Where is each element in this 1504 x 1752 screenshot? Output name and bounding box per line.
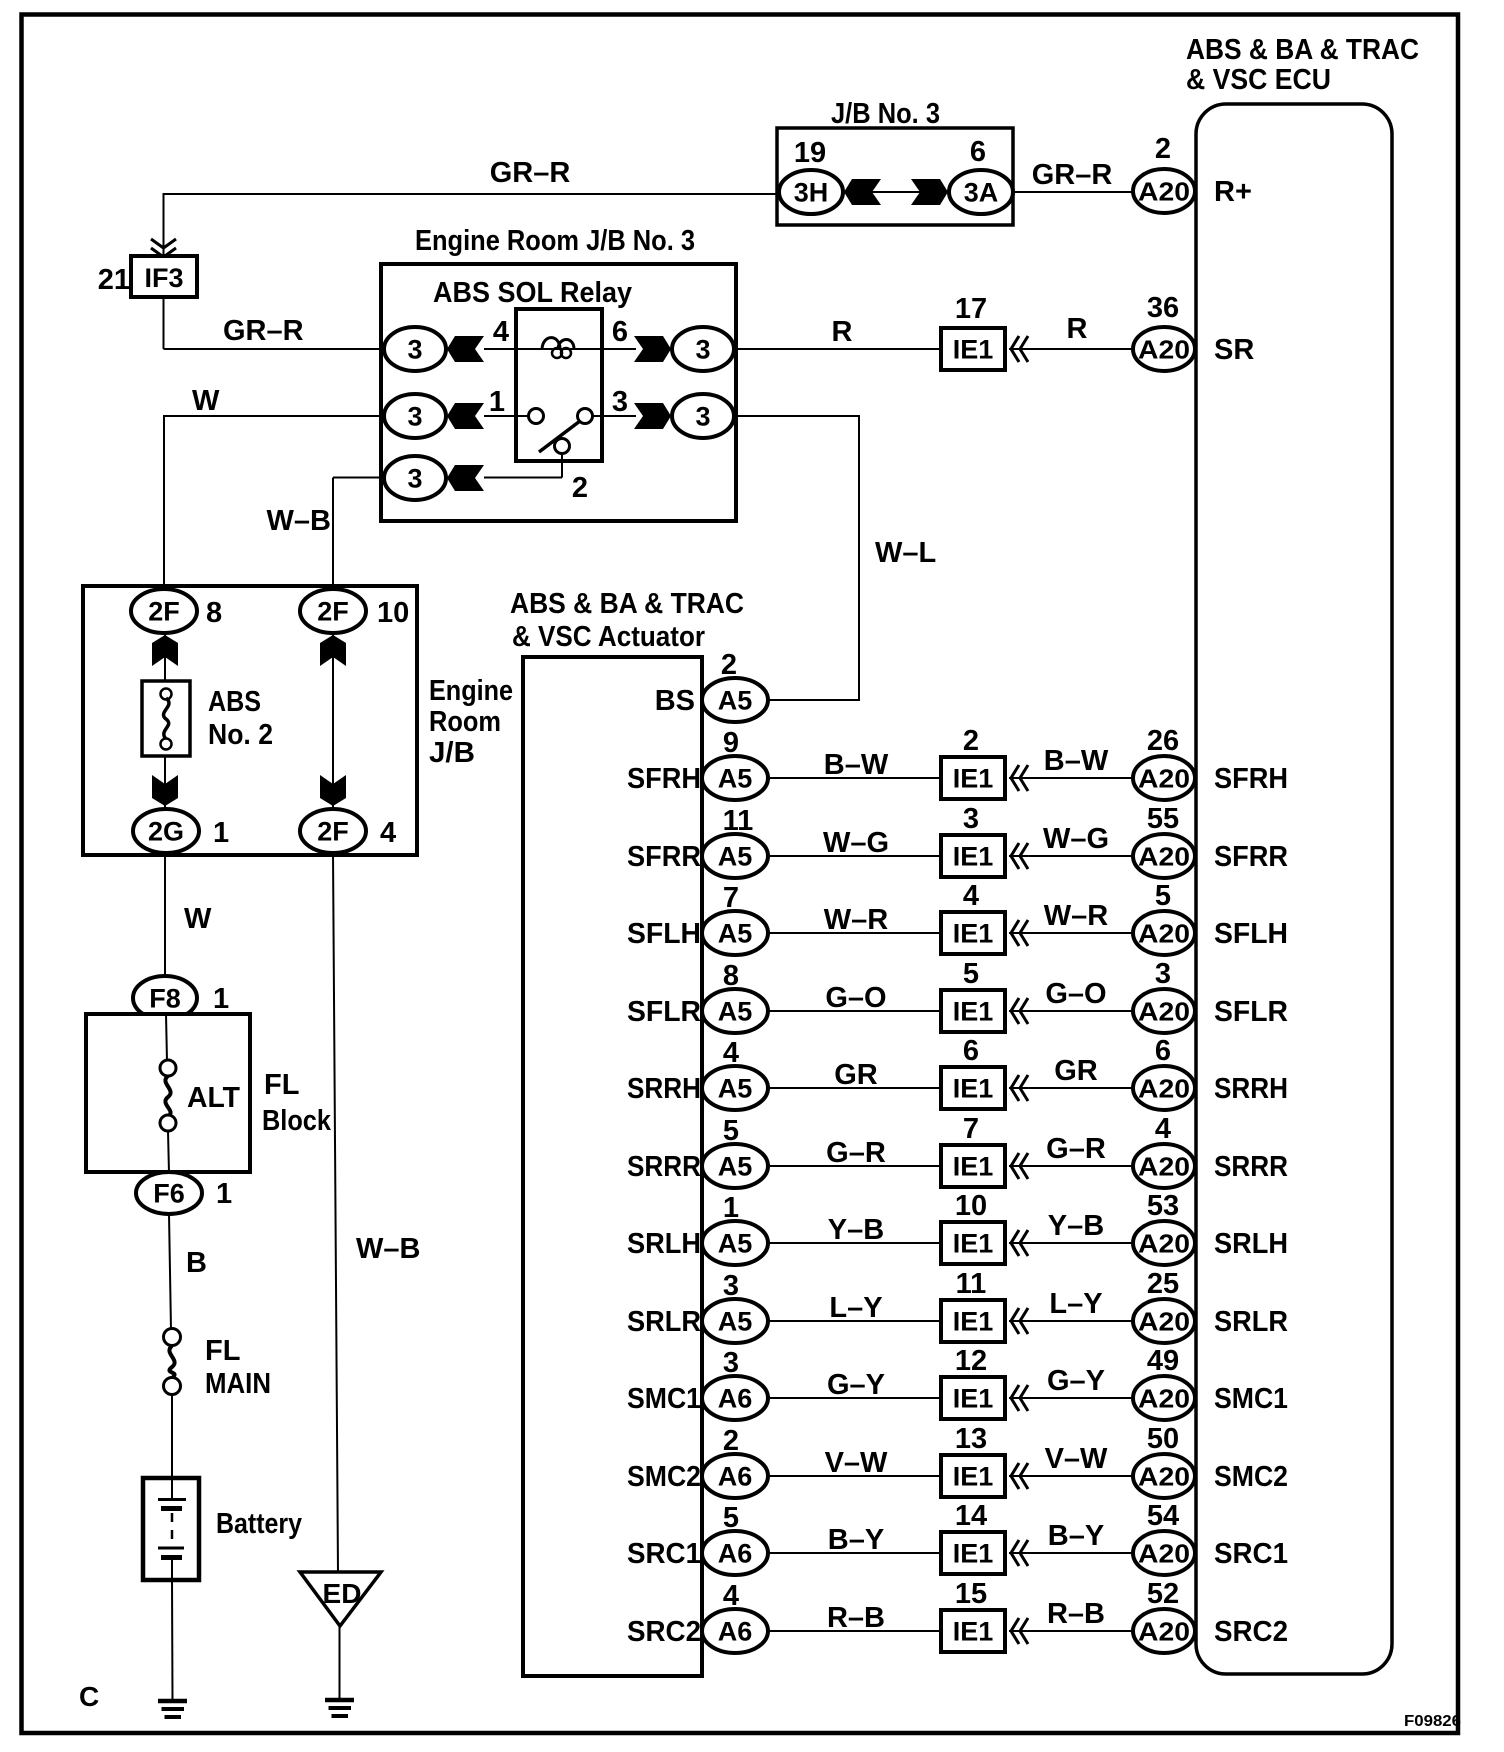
wire G–R from IE1 to ECU — [1009, 1165, 1133, 1167]
svg-text:5: 5 — [723, 1502, 739, 1534]
connector IE1 pin 4 — [941, 912, 1005, 954]
connector IE1 pin 5 — [941, 990, 1005, 1032]
junction block J/B No. 3 — [777, 98, 1013, 225]
svg-text:6: 6 — [970, 136, 986, 168]
wire B–W from IE1 to ECU — [1009, 777, 1133, 779]
wire B–W from A5 to IE1 — [768, 777, 941, 779]
svg-text:ALT: ALT — [187, 1082, 240, 1114]
svg-text:G–Y: G–Y — [1047, 1365, 1105, 1397]
svg-text:W–B: W–B — [267, 505, 331, 537]
svg-text:A20: A20 — [1138, 1229, 1190, 1259]
svg-text:3: 3 — [407, 464, 422, 494]
svg-text:SRLR: SRLR — [627, 1306, 701, 1338]
wire W to relay switch — [164, 415, 383, 590]
FL Block box — [86, 1014, 250, 1172]
connector mark at IE1 (SMC2) — [1011, 1463, 1019, 1489]
connector A20 pin 52 — [1133, 1609, 1195, 1653]
svg-text:A20: A20 — [1138, 335, 1190, 365]
svg-text:SFLH: SFLH — [627, 918, 701, 950]
svg-text:17: 17 — [955, 293, 987, 325]
svg-text:J/B No. 3: J/B No. 3 — [831, 98, 940, 130]
wire 2F-10 to 2F-4 — [332, 611, 334, 831]
battery — [143, 1478, 199, 1580]
svg-text:3: 3 — [407, 335, 422, 365]
connector IE1 pin 11 — [941, 1300, 1005, 1342]
svg-text:IE1: IE1 — [953, 919, 994, 949]
svg-text:1: 1 — [216, 1178, 232, 1210]
svg-text:A5: A5 — [718, 919, 753, 949]
connector 3 (relay coil in) — [384, 327, 446, 371]
svg-text:A6: A6 — [718, 1462, 753, 1492]
relay switch wire (pin 3 side) — [592, 415, 636, 417]
svg-text:3: 3 — [695, 335, 710, 365]
connector mark at IE1 (SMC1) — [1011, 1385, 1019, 1411]
svg-text:19: 19 — [794, 137, 826, 169]
connector A5 pin 11 — [702, 834, 768, 878]
connector A20 pin 55 — [1133, 834, 1195, 878]
svg-text:Y–B: Y–B — [1048, 1210, 1104, 1242]
svg-text:F6: F6 — [153, 1179, 185, 1209]
connector IE1 pin 13 — [941, 1455, 1005, 1497]
svg-text:SRC2: SRC2 — [1214, 1616, 1288, 1648]
svg-text:IF3: IF3 — [144, 263, 183, 293]
svg-text:B: B — [186, 1247, 207, 1279]
svg-text:Room: Room — [429, 706, 501, 738]
connector 2F pin 4 — [300, 809, 366, 853]
svg-text:2: 2 — [572, 472, 588, 504]
ECU ABS & BA & TRAC & VSC ECU box — [1186, 34, 1419, 1674]
svg-text:B–W: B–W — [824, 749, 889, 781]
connector mark at IE1 (SRRH) — [1011, 1075, 1019, 1101]
svg-text:7: 7 — [723, 882, 739, 914]
connector arrow out of relay pin 3 — [634, 403, 671, 429]
svg-text:A20: A20 — [1138, 1462, 1190, 1492]
svg-text:12: 12 — [955, 1345, 987, 1377]
svg-text:BS: BS — [655, 685, 695, 717]
svg-text:SMC2: SMC2 — [1214, 1461, 1288, 1493]
wire G–Y from A6 to IE1 — [768, 1397, 941, 1399]
connector A5 pin 4 — [702, 1066, 768, 1110]
svg-text:A20: A20 — [1138, 1152, 1190, 1182]
svg-text:SRLH: SRLH — [627, 1228, 701, 1260]
svg-text:4: 4 — [380, 817, 396, 849]
connector arrow up to 2F-10 — [320, 635, 346, 666]
svg-text:SRRH: SRRH — [627, 1073, 701, 1105]
wire R–B from A6 to IE1 — [768, 1630, 941, 1632]
connector IE1 pin 17 — [941, 328, 1005, 370]
svg-text:Battery: Battery — [216, 1508, 302, 1540]
wire B–Y from A6 to IE1 — [768, 1552, 941, 1554]
svg-text:L–Y: L–Y — [829, 1292, 882, 1324]
connector A6 pin 4 — [702, 1609, 768, 1653]
svg-text:A6: A6 — [718, 1539, 753, 1569]
svg-text:GR–R: GR–R — [1032, 159, 1113, 191]
svg-text:V–W: V–W — [825, 1447, 888, 1479]
svg-text:SFRR: SFRR — [1214, 841, 1288, 873]
svg-text:& VSC ECU: & VSC ECU — [1186, 64, 1331, 96]
svg-text:SFLR: SFLR — [627, 996, 701, 1028]
svg-text:C: C — [79, 1681, 99, 1712]
connector A20 pin 3 — [1133, 989, 1195, 1033]
svg-text:A6: A6 — [718, 1384, 753, 1414]
connector mark at IE1 — [1011, 336, 1019, 362]
svg-text:ABS SOL Relay: ABS SOL Relay — [433, 277, 632, 309]
connector IE1 pin 3 — [941, 835, 1005, 877]
wire GR-R from 3A to ECU pin 2 — [1014, 191, 1133, 193]
fusible link ALT — [160, 1014, 176, 1173]
svg-text:IE1: IE1 — [953, 335, 994, 365]
junction block Engine Room J/B No.3 box — [381, 264, 736, 521]
svg-text:2: 2 — [1155, 133, 1171, 165]
svg-text:GR–R: GR–R — [223, 315, 304, 347]
svg-text:Block: Block — [262, 1105, 332, 1137]
fuse IF3 — [131, 256, 197, 297]
connector A20 pin 53 — [1133, 1221, 1195, 1265]
wire GR-R from IF3 down to ABS SOL relay coil — [164, 297, 384, 349]
svg-text:5: 5 — [963, 958, 979, 990]
connector 3H — [779, 170, 843, 214]
svg-text:SRRR: SRRR — [627, 1151, 701, 1183]
svg-text:10: 10 — [955, 1190, 987, 1222]
svg-text:10: 10 — [377, 597, 409, 629]
svg-text:3: 3 — [1155, 958, 1171, 990]
svg-text:3: 3 — [723, 1347, 739, 1379]
connector IE1 pin 14 — [941, 1532, 1005, 1574]
connector mark at IE1 (SFLH) — [1011, 920, 1019, 946]
svg-text:SRC1: SRC1 — [1214, 1538, 1288, 1570]
svg-text:A5: A5 — [718, 686, 753, 716]
svg-text:IE1: IE1 — [953, 764, 994, 794]
svg-text:FL: FL — [205, 1335, 240, 1367]
wire W–G from A5 to IE1 — [768, 855, 941, 857]
svg-text:IE1: IE1 — [953, 1384, 994, 1414]
svg-text:R: R — [832, 316, 853, 348]
wire W-B from relay pin 2 down to Engine Room J/B — [333, 478, 383, 591]
connector 2F pin 8 — [131, 589, 197, 633]
wire W–R from IE1 to ECU — [1009, 932, 1133, 934]
svg-text:3: 3 — [695, 402, 710, 432]
connector mark at IE1 (SFRR) — [1011, 843, 1019, 869]
svg-text:IE1: IE1 — [953, 1539, 994, 1569]
junction block Engine Room J/B box — [83, 586, 417, 855]
svg-text:IE1: IE1 — [953, 1229, 994, 1259]
svg-text:B–W: B–W — [1044, 745, 1109, 777]
wire G–O from A5 to IE1 — [768, 1010, 941, 1012]
svg-text:50: 50 — [1147, 1423, 1179, 1455]
wire GR from IE1 to ECU — [1009, 1087, 1133, 1089]
svg-text:SFRH: SFRH — [1214, 763, 1288, 795]
svg-text:F09826: F09826 — [1404, 1713, 1461, 1730]
svg-text:21: 21 — [98, 264, 130, 296]
svg-text:A20: A20 — [1138, 1617, 1190, 1647]
svg-text:IE1: IE1 — [953, 1152, 994, 1182]
svg-text:1: 1 — [213, 983, 229, 1015]
svg-text:GR: GR — [834, 1059, 878, 1091]
connector arrow down to 2F-4 — [320, 775, 346, 806]
svg-text:14: 14 — [955, 1500, 987, 1532]
fusible link FL MAIN — [164, 1329, 181, 1395]
svg-text:SFLR: SFLR — [1214, 996, 1288, 1028]
svg-text:R+: R+ — [1214, 176, 1252, 208]
svg-text:3: 3 — [963, 803, 979, 835]
svg-text:A5: A5 — [718, 997, 753, 1027]
label ABS No. 2 — [208, 686, 273, 751]
svg-text:Engine Room J/B No. 3: Engine Room J/B No. 3 — [415, 225, 695, 257]
svg-text:MAIN: MAIN — [205, 1368, 271, 1400]
connector arrow up to 2F-8 — [152, 635, 178, 666]
connector A20 pin 50 — [1133, 1454, 1195, 1498]
relay pin 2 wire to bottom connector — [484, 453, 562, 478]
wire R–B from IE1 to ECU — [1009, 1630, 1133, 1632]
connector arrow (male, at 3A) — [911, 179, 948, 205]
wire FL MAIN to battery — [171, 1395, 173, 1479]
wire G–Y from IE1 to ECU — [1009, 1397, 1133, 1399]
svg-text:1: 1 — [723, 1192, 739, 1224]
svg-text:2G: 2G — [148, 817, 184, 847]
svg-text:3: 3 — [612, 386, 628, 418]
svg-text:4: 4 — [723, 1580, 739, 1612]
relay switch contacts and arm — [529, 409, 593, 454]
connector 3A — [949, 170, 1013, 214]
wire W–R from A5 to IE1 — [768, 932, 941, 934]
svg-text:A5: A5 — [718, 1152, 753, 1182]
relay switch wire (pin 1 side) — [484, 415, 529, 417]
label FL MAIN — [205, 1335, 271, 1400]
svg-text:4: 4 — [723, 1037, 739, 1069]
connector A20 pin 25 — [1133, 1299, 1195, 1343]
svg-text:A20: A20 — [1138, 1539, 1190, 1569]
svg-text:SMC1: SMC1 — [627, 1383, 701, 1415]
svg-text:W–B: W–B — [356, 1233, 420, 1265]
svg-text:SRLR: SRLR — [1214, 1306, 1288, 1338]
connector IE1 pin 15 — [941, 1610, 1005, 1652]
connector IE1 pin 7 — [941, 1145, 1005, 1187]
svg-text:11: 11 — [956, 1268, 987, 1300]
relay coil wire (pin 4 to pin 6) — [484, 348, 636, 350]
connector arrow into relay pin 1 connector — [447, 403, 484, 429]
svg-text:4: 4 — [1155, 1113, 1171, 1145]
connector A5 pin 1 — [702, 1221, 768, 1265]
connector A5 pin 2 (BS) — [702, 678, 768, 722]
svg-text:5: 5 — [1155, 880, 1171, 912]
connector mark at IE1 (SFLR) — [1011, 998, 1019, 1024]
svg-text:53: 53 — [1147, 1190, 1179, 1222]
svg-text:B–Y: B–Y — [1048, 1520, 1104, 1552]
svg-text:G–R: G–R — [826, 1137, 886, 1169]
wire W-L from relay switch to actuator BS — [736, 415, 860, 700]
svg-text:W: W — [192, 385, 220, 417]
svg-text:IE1: IE1 — [953, 1617, 994, 1647]
svg-text:A20: A20 — [1138, 842, 1190, 872]
svg-text:W–G: W–G — [823, 827, 889, 859]
svg-text:B–Y: B–Y — [828, 1524, 884, 1556]
wire R from IE1 to ECU pin 36 — [1009, 348, 1133, 350]
connector mark at IE1 (SRLR) — [1011, 1308, 1019, 1334]
connector IE1 pin 2 — [941, 757, 1005, 799]
label ABS & BA & TRAC & VSC Actuator — [510, 588, 744, 653]
svg-text:1: 1 — [213, 817, 229, 849]
svg-text:A20: A20 — [1138, 1307, 1190, 1337]
connector mark at IE1 (SRLH) — [1011, 1230, 1019, 1256]
wire inside J/B No.3 between 3H and 3A — [843, 191, 949, 193]
wire W from 2G to F8 — [164, 853, 166, 977]
connector A20 pin 4 — [1133, 1144, 1195, 1188]
svg-text:No. 2: No. 2 — [208, 719, 273, 751]
connector 2G pin 1 — [133, 809, 199, 853]
connector A20 pin 54 — [1133, 1531, 1195, 1575]
svg-text:GR–R: GR–R — [490, 157, 571, 189]
connector A20 pin 6 — [1133, 1066, 1195, 1110]
svg-text:SRRH: SRRH — [1214, 1073, 1288, 1105]
svg-text:49: 49 — [1147, 1345, 1179, 1377]
svg-text:A5: A5 — [718, 764, 753, 794]
connector A20 pin 2 — [1133, 169, 1195, 213]
svg-text:SFLH: SFLH — [1214, 918, 1288, 950]
wire V–W from A6 to IE1 — [768, 1475, 941, 1477]
svg-text:6: 6 — [612, 316, 628, 348]
wire L–Y from IE1 to ECU — [1009, 1320, 1133, 1322]
wire W–G from IE1 to ECU — [1009, 855, 1133, 857]
svg-text:2: 2 — [723, 1425, 739, 1457]
connector A6 pin 3 — [702, 1376, 768, 1420]
fusible link symbol above IF3 — [151, 239, 176, 257]
svg-text:6: 6 — [1155, 1035, 1171, 1067]
svg-text:A5: A5 — [718, 1307, 753, 1337]
connector mark at IE1 (SRRR) — [1011, 1153, 1019, 1179]
svg-text:A20: A20 — [1138, 1074, 1190, 1104]
connector IE1 pin 10 — [941, 1222, 1005, 1264]
wire battery to ground — [171, 1580, 174, 1701]
svg-text:FL: FL — [264, 1069, 299, 1101]
svg-text:J/B: J/B — [429, 737, 475, 769]
svg-text:W–R: W–R — [1044, 900, 1109, 932]
connector 3 (relay pin 2) — [384, 456, 446, 500]
wire Y–B from IE1 to ECU — [1009, 1242, 1133, 1244]
svg-text:3A: 3A — [964, 178, 999, 208]
connector A5 pin 3 — [702, 1299, 768, 1343]
svg-text:IE1: IE1 — [953, 997, 994, 1027]
svg-text:IE1: IE1 — [953, 1074, 994, 1104]
svg-text:R–B: R–B — [1047, 1598, 1105, 1630]
svg-text:G–R: G–R — [1046, 1133, 1106, 1165]
svg-text:IE1: IE1 — [953, 842, 994, 872]
svg-text:2F: 2F — [317, 817, 349, 847]
svg-text:ABS & BA & TRAC: ABS & BA & TRAC — [1186, 34, 1419, 66]
svg-text:W–R: W–R — [824, 904, 889, 936]
connector arrow out of relay pin 6 — [634, 336, 671, 362]
svg-text:SFRH: SFRH — [627, 763, 701, 795]
connector F8 — [133, 976, 197, 1020]
svg-text:SMC1: SMC1 — [1214, 1383, 1288, 1415]
wire G–O from IE1 to ECU — [1009, 1010, 1133, 1012]
connector A5 pin 5 — [702, 1144, 768, 1188]
wire B from F6 to FL MAIN — [169, 1214, 171, 1330]
connector 2F pin 10 — [300, 589, 366, 633]
svg-text:15: 15 — [955, 1578, 987, 1610]
svg-text:R–B: R–B — [827, 1602, 885, 1634]
svg-text:ABS: ABS — [208, 686, 261, 718]
connector mark at IE1 (SFRH) — [1011, 765, 1019, 791]
svg-text:A5: A5 — [718, 1229, 753, 1259]
svg-text:ED: ED — [323, 1578, 362, 1609]
svg-text:R: R — [1067, 313, 1088, 345]
connector 3 (relay switch out) — [672, 394, 734, 438]
wire Y–B from A5 to IE1 — [768, 1242, 941, 1244]
svg-text:SRC2: SRC2 — [627, 1616, 701, 1648]
svg-text:A20: A20 — [1138, 997, 1190, 1027]
actuator box — [523, 657, 702, 1676]
svg-text:A5: A5 — [718, 1074, 753, 1104]
svg-text:55: 55 — [1147, 803, 1179, 835]
connector arrow into relay pin 4 connector — [447, 336, 484, 362]
connector A5 pin 9 — [702, 756, 768, 800]
connector mark at IE1 (SRC1) — [1011, 1540, 1019, 1566]
svg-text:6: 6 — [963, 1035, 979, 1067]
connector F6 — [136, 1172, 202, 1214]
svg-text:Engine: Engine — [429, 675, 513, 707]
ground (battery) — [158, 1701, 187, 1717]
svg-text:11: 11 — [723, 805, 754, 837]
svg-text:ABS & BA & TRAC: ABS & BA & TRAC — [510, 588, 744, 620]
svg-text:SRRR: SRRR — [1214, 1151, 1288, 1183]
svg-text:2: 2 — [963, 725, 979, 757]
connector A5 pin 7 — [702, 911, 768, 955]
svg-text:52: 52 — [1147, 1578, 1179, 1610]
svg-text:IE1: IE1 — [953, 1462, 994, 1492]
svg-text:36: 36 — [1147, 292, 1179, 324]
svg-text:2F: 2F — [317, 597, 349, 627]
label Engine Room J/B — [429, 675, 513, 769]
svg-text:A20: A20 — [1138, 1384, 1190, 1414]
wire G–R from A5 to IE1 — [768, 1165, 941, 1167]
wire through ABS No.2 fuse — [164, 611, 166, 831]
svg-text:W–G: W–G — [1043, 823, 1109, 855]
svg-text:4: 4 — [493, 316, 509, 348]
connector 3 (relay coil out) — [672, 327, 734, 371]
svg-text:4: 4 — [963, 880, 979, 912]
svg-text:SMC2: SMC2 — [627, 1461, 701, 1493]
wire B–Y from IE1 to ECU — [1009, 1552, 1133, 1554]
connector arrow down to 2G-1 — [152, 775, 178, 806]
svg-text:Y–B: Y–B — [828, 1214, 884, 1246]
connector A20 pin 49 — [1133, 1376, 1195, 1420]
svg-text:54: 54 — [1147, 1500, 1179, 1532]
svg-text:G–O: G–O — [1045, 978, 1106, 1010]
svg-text:25: 25 — [1147, 1268, 1179, 1300]
connector arrow into relay pin 2 connector — [447, 465, 484, 491]
svg-text:V–W: V–W — [1045, 1443, 1108, 1475]
connector mark at IE1 (SRC2) — [1011, 1618, 1019, 1644]
connector A20 pin 5 — [1133, 911, 1195, 955]
relay ABS SOL inner box — [516, 309, 602, 461]
connector IE1 pin 6 — [941, 1067, 1005, 1109]
wire GR from A5 to IE1 — [768, 1087, 941, 1089]
connector 3 (relay switch in) — [384, 394, 446, 438]
svg-text:9: 9 — [723, 727, 739, 759]
connector IE1 pin 12 — [941, 1377, 1005, 1419]
svg-text:3: 3 — [723, 1270, 739, 1302]
connector A6 pin 5 — [702, 1531, 768, 1575]
svg-text:G–O: G–O — [825, 982, 886, 1014]
connector A6 pin 2 — [702, 1454, 768, 1498]
svg-text:3H: 3H — [794, 178, 829, 208]
wire R from relay to IE1 — [736, 348, 941, 350]
svg-text:IE1: IE1 — [953, 1307, 994, 1337]
svg-text:26: 26 — [1147, 725, 1179, 757]
svg-text:A20: A20 — [1138, 764, 1190, 794]
connector A5 pin 8 — [702, 989, 768, 1033]
svg-text:2: 2 — [721, 649, 737, 681]
